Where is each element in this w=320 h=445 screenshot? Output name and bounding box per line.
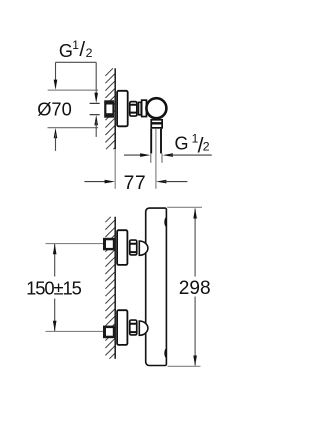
- label G1/2 (hose thread): [175, 132, 210, 158]
- 150 dim line lower segment: [54, 299, 56, 332]
- union 2 dome (check valve housing): [139, 321, 148, 335]
- union 1 nut facets: [130, 244, 138, 252]
- hose right extension tick: [161, 153, 163, 162]
- 298 dim ext line top: [167, 206, 202, 208]
- neck between nut and valve body: [139, 102, 142, 115]
- collar divider band: [151, 122, 164, 124]
- union 2 nut facets: [130, 324, 138, 332]
- union 1 nut: [130, 240, 137, 255]
- left arrowhead at hose centerline: [156, 180, 166, 184]
- valve body (side view): [142, 100, 147, 116]
- hose right wall: [160, 129, 162, 154]
- O70 lower dim tail: [55, 134, 57, 151]
- down arrowhead at escutcheon top line: [54, 80, 58, 90]
- hose left wall: [150, 129, 152, 154]
- 298 dim line lower segment: [194, 297, 196, 366]
- hose collar below knob: [151, 120, 162, 128]
- svg-text:1: 1: [72, 38, 79, 52]
- svg-text:Ø70: Ø70: [37, 98, 72, 119]
- hose G1/2 dim left line: [124, 154, 143, 156]
- union 1 dome (check valve housing): [139, 241, 148, 255]
- right arrowhead at wall ext line: [105, 180, 115, 184]
- wall line (bottom view): [114, 217, 116, 359]
- 150 dim line upper segment: [54, 244, 56, 277]
- 77 dim left line: [84, 181, 107, 183]
- handle knob circle: [146, 98, 166, 118]
- hose G1/2 dim right line: [170, 154, 211, 156]
- pipe top extension tick: [90, 102, 100, 104]
- svg-text:298: 298: [179, 278, 211, 299]
- screw boss notch upper: [164, 217, 167, 227]
- 150 dim ext line lower (pipe 2 centerline): [46, 330, 105, 332]
- left arrowhead at hose right edge: [163, 153, 173, 157]
- dim ext line escutcheon bottom (O70): [48, 127, 99, 129]
- up arrowhead at pipe1 line: [53, 244, 57, 254]
- label G1/2 (top supply thread): [59, 38, 93, 61]
- wall hatch (top view): [105, 68, 115, 149]
- right arrowhead at hose left edge: [140, 153, 150, 157]
- G1/2 right drop line: [95, 62, 97, 98]
- union 1 escutcheon: [117, 230, 127, 265]
- svg-text:150±15: 150±15: [26, 277, 82, 298]
- up arrowhead at escutcheon bottom line: [54, 128, 58, 138]
- up arrowhead at body top ext: [193, 208, 197, 218]
- screw boss notch lower: [164, 348, 167, 358]
- svg-text:G: G: [59, 41, 73, 61]
- svg-text:77: 77: [124, 173, 147, 194]
- up arrowhead at pipe bottom line: [94, 115, 98, 125]
- union 2 escutcheon: [117, 310, 127, 345]
- dim ext line escutcheon top (O70): [48, 89, 98, 91]
- nut facet lines: [130, 105, 138, 113]
- G1/2 left drop line: [55, 62, 57, 81]
- supply elbow square 2 in wall: [103, 326, 115, 339]
- svg-text:2: 2: [86, 46, 93, 60]
- G1/2 leader bar: [56, 61, 97, 63]
- 298 dim line upper segment: [194, 209, 196, 277]
- hose left extension tick: [150, 153, 152, 162]
- svg-text:2: 2: [203, 140, 210, 154]
- nut (side view): [130, 102, 137, 116]
- supply elbow square in wall: [104, 100, 114, 117]
- wall line (top view): [114, 68, 116, 149]
- thermostat body: [146, 208, 167, 365]
- escutcheon (side view): [117, 91, 128, 127]
- 150 dim ext line upper (pipe 1 centerline): [46, 243, 104, 245]
- wall face extension line down to 77 dim: [114, 149, 116, 189]
- down arrowhead at body bottom ext: [193, 356, 197, 366]
- svg-text:/: /: [79, 38, 85, 61]
- pipe bottom extension tick: [90, 114, 100, 116]
- 77 dim right line: [164, 181, 187, 183]
- down arrowhead at pipe top line: [94, 93, 98, 103]
- 298 dim ext line bottom: [168, 365, 201, 367]
- union 2 nut: [130, 320, 137, 335]
- hose centerline: [155, 129, 157, 189]
- pipe dim lower tail: [95, 121, 97, 137]
- down arrowhead at pipe2 line: [53, 321, 57, 331]
- svg-text:G: G: [175, 134, 189, 154]
- wall hatch (bottom view): [105, 217, 115, 359]
- supply elbow square 1 in wall: [103, 238, 115, 251]
